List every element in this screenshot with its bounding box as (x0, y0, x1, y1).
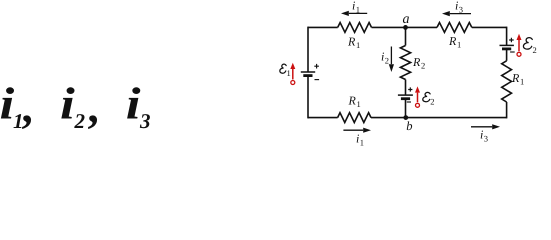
svg-text:3: 3 (139, 109, 151, 133)
emf arrow EMF1 left (291, 81, 295, 85)
battery EMF2-right short plate (502, 48, 511, 51)
battery EMF2-middle plus sign (408, 87, 412, 91)
svg-text:,: , (22, 82, 33, 132)
wire middle branch upper (405, 27, 407, 45)
label i1 (answer list) (0, 79, 33, 134)
svg-text:b: b (406, 119, 412, 133)
wire middle branch mid (405, 80, 407, 96)
wire left side lower (307, 76, 309, 119)
current arrow i1 bottom (343, 129, 363, 131)
svg-text:i: i (60, 79, 75, 129)
svg-text:3: 3 (459, 4, 463, 14)
resistor R1 bottom (338, 113, 371, 123)
wire top-right segment (472, 26, 507, 28)
svg-text:2: 2 (74, 109, 86, 133)
wire top-middle segment (372, 26, 438, 28)
wire middle branch lower (405, 99, 407, 118)
wire bottom-middle segment (371, 117, 507, 119)
resistor R1 right side (502, 61, 512, 102)
wire right side lower (506, 102, 508, 118)
wire bottom-left segment (308, 117, 338, 119)
emf arrow EMF2 right (517, 52, 521, 56)
svg-text:2: 2 (421, 61, 425, 71)
current arrow i3 top (450, 13, 471, 15)
svg-text:R: R (448, 34, 457, 48)
battery EMF1 plus sign (314, 64, 319, 69)
svg-text:i: i (126, 79, 141, 129)
svg-text:1: 1 (287, 68, 291, 78)
svg-text:R: R (348, 94, 357, 108)
current arrow i2 middle (390, 47, 392, 65)
svg-text:1: 1 (520, 77, 524, 87)
svg-text:2: 2 (533, 45, 537, 55)
emf arrow EMF2 middle (416, 103, 420, 107)
battery EMF2-middle long plate (398, 94, 413, 96)
label EMF2 middle (423, 92, 430, 101)
battery EMF1 minus sign (315, 79, 320, 81)
resistor R2 middle (400, 46, 410, 80)
current arrow i1 top (349, 12, 367, 14)
wire right side upper (506, 27, 508, 46)
current arrow i3 bottom (471, 126, 492, 128)
svg-text:1: 1 (356, 40, 360, 50)
battery EMF1 short plate (303, 74, 312, 77)
svg-text:a: a (403, 12, 410, 27)
wire right side mid (506, 49, 508, 61)
svg-text:R: R (347, 35, 356, 49)
battery EMF2-right minus sign (510, 51, 515, 53)
svg-text:1: 1 (457, 40, 461, 50)
resistor R1 top-right (437, 23, 472, 33)
svg-text:,: , (88, 82, 99, 132)
svg-text:2: 2 (430, 97, 434, 107)
svg-text:2: 2 (385, 55, 389, 65)
battery EMF2-middle minus sign (407, 101, 411, 103)
svg-text:1: 1 (357, 99, 361, 109)
label EMF2 right (523, 38, 532, 50)
svg-text:1: 1 (360, 137, 364, 146)
label EMF1 (280, 64, 286, 73)
svg-text:R: R (412, 55, 421, 69)
svg-text:3: 3 (484, 133, 488, 143)
wire top-left segment (308, 26, 338, 28)
wire left side upper (307, 27, 309, 72)
node a (403, 25, 408, 30)
battery EMF1 long plate (301, 71, 315, 73)
svg-text:1: 1 (356, 4, 360, 14)
resistor R1 top-left (338, 23, 372, 33)
battery EMF2-middle short plate (401, 97, 410, 100)
label i3 (answer list) (126, 79, 151, 134)
node b (403, 115, 408, 120)
svg-text:R: R (511, 71, 520, 85)
battery EMF2-right plus sign (509, 38, 514, 43)
label i2 (answer list) (60, 79, 99, 134)
battery EMF2-right long plate (500, 44, 514, 46)
